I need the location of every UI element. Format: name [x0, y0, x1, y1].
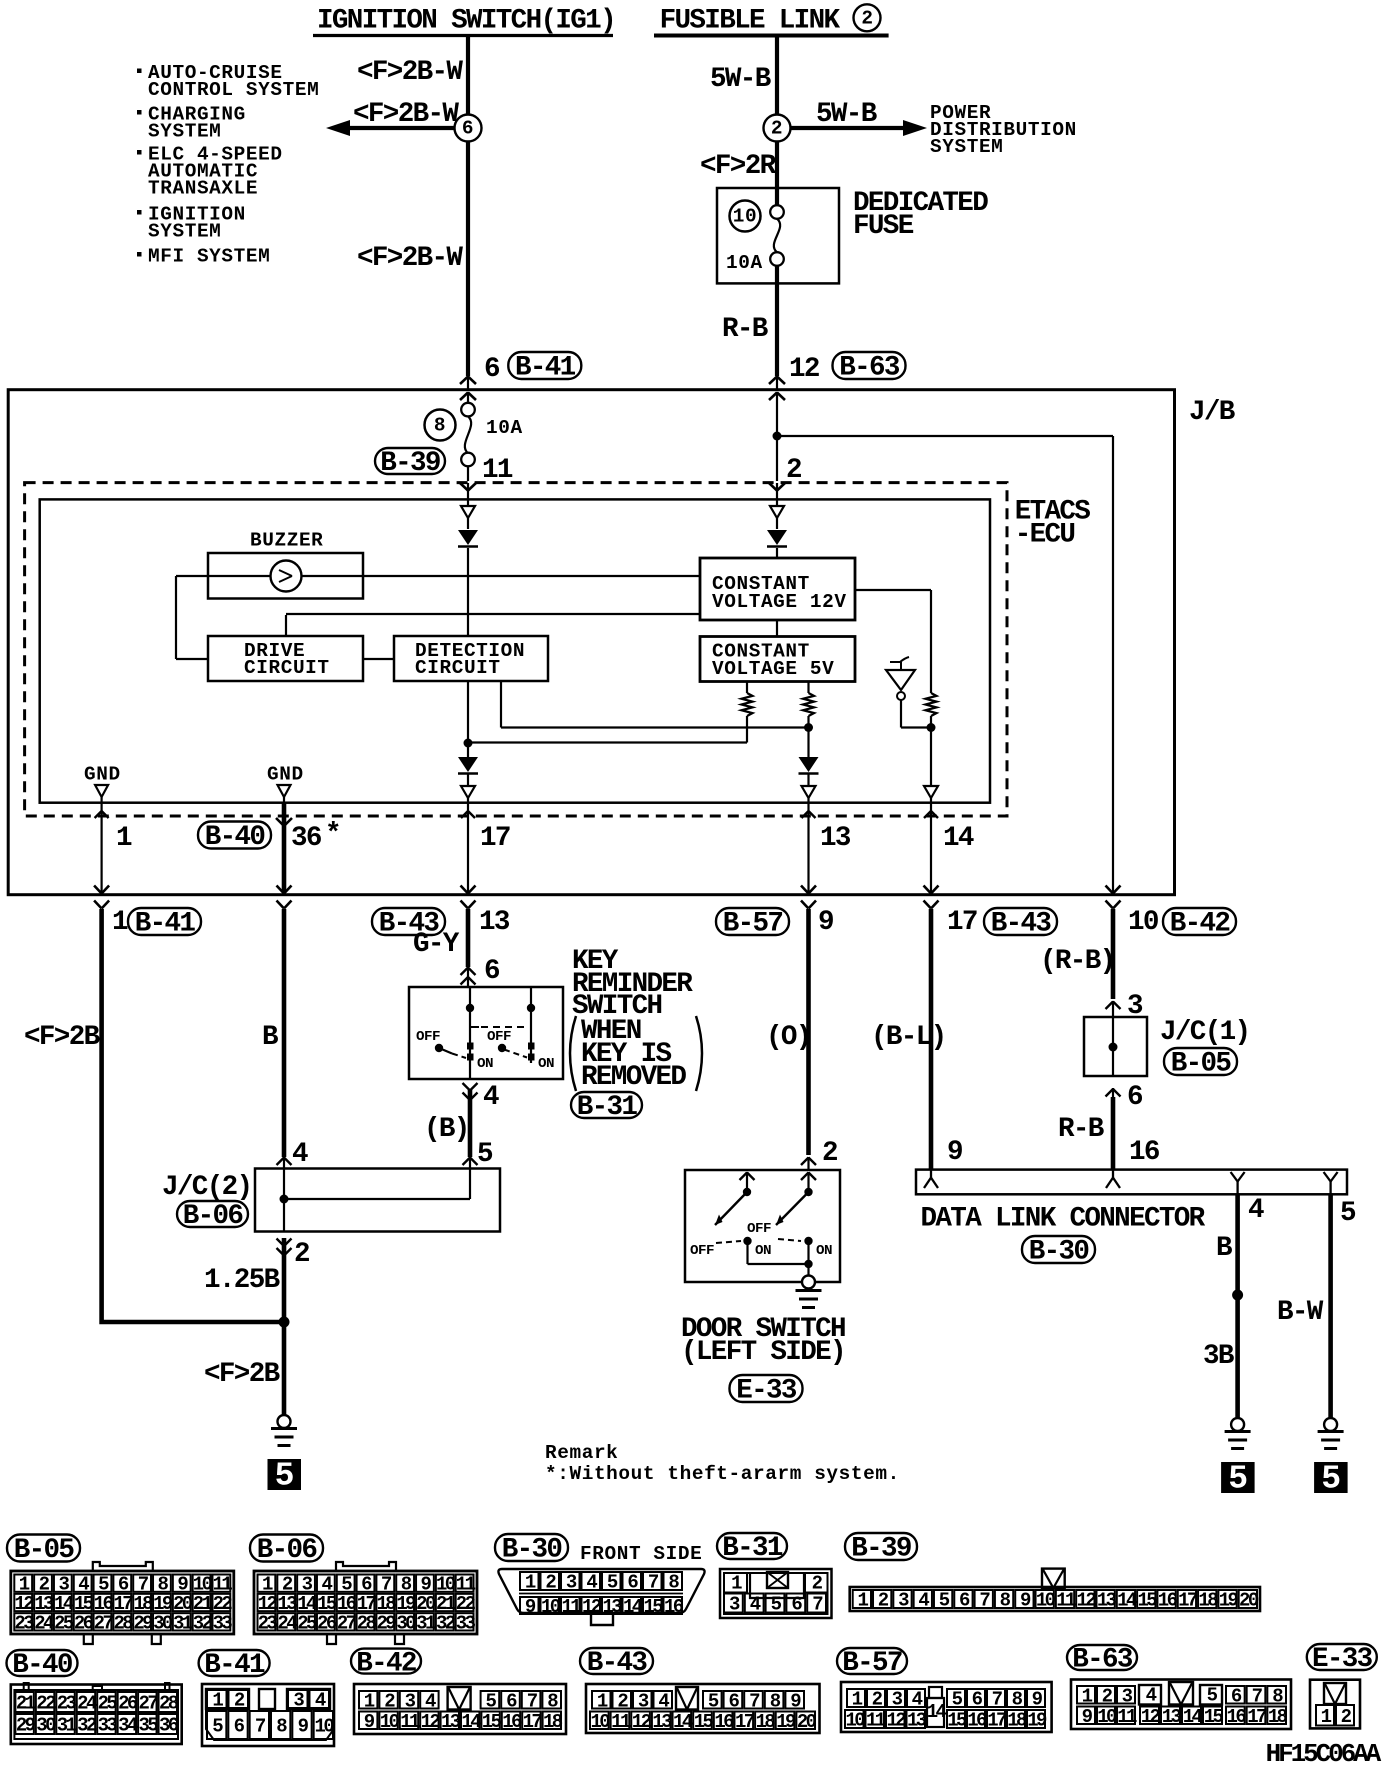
- svg-text:<F>2B-W: <F>2B-W: [357, 243, 463, 274]
- svg-text:16: 16: [1158, 1590, 1178, 1612]
- svg-text:32: 32: [77, 1715, 97, 1737]
- svg-text:5: 5: [1340, 1198, 1356, 1229]
- svg-text:13: 13: [907, 1710, 927, 1732]
- svg-text:33: 33: [98, 1715, 118, 1737]
- svg-text:B: B: [1216, 1233, 1232, 1264]
- svg-text:28: 28: [113, 1612, 133, 1634]
- svg-text:4: 4: [1248, 1195, 1264, 1226]
- svg-text:29: 29: [133, 1612, 153, 1634]
- svg-text:10: 10: [315, 1716, 335, 1738]
- svg-text:32: 32: [436, 1612, 456, 1634]
- svg-text:5: 5: [275, 1458, 295, 1495]
- svg-text:10: 10: [1097, 1706, 1117, 1728]
- svg-text:13: 13: [1162, 1706, 1182, 1728]
- svg-text:27: 27: [139, 1693, 159, 1715]
- svg-text:B-57: B-57: [723, 909, 783, 940]
- svg-text:SYSTEM: SYSTEM: [148, 221, 221, 243]
- svg-text:13: 13: [602, 1596, 622, 1618]
- svg-text:13: 13: [479, 907, 510, 938]
- svg-text:16: 16: [1227, 1706, 1247, 1728]
- svg-text:B-30: B-30: [502, 1535, 562, 1566]
- svg-text:17: 17: [735, 1711, 755, 1733]
- svg-text:19: 19: [1027, 1710, 1047, 1732]
- svg-text:9: 9: [818, 907, 833, 938]
- svg-text:19: 19: [1219, 1590, 1239, 1612]
- svg-text:13: 13: [441, 1711, 461, 1733]
- svg-text:ON: ON: [477, 1056, 493, 1072]
- svg-text:10: 10: [591, 1711, 611, 1733]
- svg-text:1: 1: [112, 907, 128, 938]
- svg-text:36: 36: [159, 1715, 179, 1737]
- svg-text:B-05: B-05: [14, 1535, 75, 1566]
- svg-text:SYSTEM: SYSTEM: [148, 121, 221, 143]
- svg-text:26: 26: [118, 1693, 138, 1715]
- svg-text:ON: ON: [755, 1243, 771, 1259]
- svg-text:11: 11: [1117, 1706, 1137, 1728]
- svg-text:CIRCUIT: CIRCUIT: [415, 657, 501, 679]
- svg-text:5W-B: 5W-B: [816, 99, 877, 130]
- svg-text:29: 29: [16, 1715, 36, 1737]
- svg-text:SYSTEM: SYSTEM: [930, 136, 1003, 158]
- svg-text:15: 15: [947, 1710, 967, 1732]
- svg-text:18: 18: [1198, 1590, 1218, 1612]
- svg-text:BUZZER: BUZZER: [250, 530, 323, 552]
- svg-text:4: 4: [483, 1082, 499, 1113]
- svg-text:OFF: OFF: [416, 1029, 440, 1045]
- svg-text:17: 17: [947, 907, 977, 938]
- svg-text:GND: GND: [267, 763, 304, 785]
- svg-text:12: 12: [1077, 1590, 1097, 1612]
- svg-text:J/B: J/B: [1189, 397, 1235, 428]
- svg-text:3B: 3B: [1203, 1341, 1234, 1372]
- svg-text:11: 11: [561, 1596, 581, 1618]
- svg-text:6: 6: [462, 118, 474, 140]
- svg-text:2: 2: [294, 1239, 309, 1270]
- svg-text:17: 17: [1247, 1706, 1267, 1728]
- svg-text:12: 12: [886, 1710, 906, 1732]
- svg-text:HF15C06AA: HF15C06AA: [1266, 1739, 1382, 1766]
- svg-text:B-40: B-40: [205, 822, 265, 853]
- svg-text:9: 9: [947, 1137, 962, 1168]
- svg-text:2: 2: [861, 8, 873, 30]
- svg-text:6: 6: [1127, 1082, 1143, 1113]
- svg-text:*:Without theft-ararm system.: *:Without theft-ararm system.: [545, 1463, 900, 1485]
- svg-text:B-W: B-W: [1277, 1297, 1324, 1328]
- svg-text:B-31: B-31: [577, 1092, 638, 1123]
- svg-text:DATA LINK CONNECTOR: DATA LINK CONNECTOR: [921, 1204, 1206, 1235]
- svg-text:30: 30: [396, 1612, 416, 1634]
- svg-text:31: 31: [173, 1612, 193, 1634]
- svg-text:CONTROL SYSTEM: CONTROL SYSTEM: [148, 79, 319, 101]
- svg-text:12: 12: [1141, 1706, 1161, 1728]
- svg-text:B-30: B-30: [1029, 1237, 1089, 1268]
- svg-text:4: 4: [292, 1139, 308, 1170]
- svg-text:B-40: B-40: [12, 1650, 72, 1681]
- svg-text:17: 17: [1178, 1590, 1198, 1612]
- svg-text:<F>2B: <F>2B: [24, 1022, 100, 1053]
- svg-text:16: 16: [664, 1596, 684, 1618]
- svg-text:12: 12: [632, 1711, 652, 1733]
- svg-text:23: 23: [14, 1612, 34, 1634]
- svg-text:20: 20: [797, 1711, 817, 1733]
- svg-text:E-33: E-33: [736, 1376, 797, 1407]
- svg-text:R-B: R-B: [1058, 1114, 1104, 1145]
- svg-text:14: 14: [461, 1711, 481, 1733]
- svg-text:<F>2B-W: <F>2B-W: [357, 57, 463, 88]
- svg-text:27: 27: [337, 1612, 357, 1634]
- svg-text:24: 24: [34, 1612, 54, 1634]
- svg-text:15: 15: [482, 1711, 502, 1733]
- svg-text:B-39: B-39: [380, 448, 440, 479]
- svg-text:30: 30: [153, 1612, 173, 1634]
- svg-text:OFF: OFF: [487, 1029, 511, 1045]
- svg-text:18: 18: [756, 1711, 776, 1733]
- svg-text:17: 17: [987, 1710, 1007, 1732]
- svg-text:16: 16: [502, 1711, 522, 1733]
- svg-text:23: 23: [258, 1612, 278, 1634]
- svg-text:17: 17: [523, 1711, 543, 1733]
- svg-text:2: 2: [771, 118, 783, 140]
- svg-text:13: 13: [1097, 1590, 1117, 1612]
- svg-text:10: 10: [1036, 1590, 1056, 1612]
- svg-text:34: 34: [118, 1715, 138, 1737]
- svg-text:Remark: Remark: [545, 1442, 618, 1464]
- svg-text:14: 14: [943, 823, 974, 854]
- svg-text:5: 5: [1321, 1461, 1341, 1498]
- svg-text:ON: ON: [816, 1243, 832, 1259]
- svg-text:E-33: E-33: [1312, 1644, 1373, 1675]
- svg-text:14: 14: [927, 1701, 947, 1723]
- svg-text:6: 6: [484, 956, 500, 987]
- svg-text:(O): (O): [766, 1022, 811, 1053]
- svg-text:16: 16: [714, 1711, 734, 1733]
- svg-text:5: 5: [477, 1139, 493, 1170]
- svg-text:FUSIBLE LINK: FUSIBLE LINK: [660, 5, 841, 36]
- svg-text:B-06: B-06: [257, 1535, 318, 1566]
- svg-text:-ECU: -ECU: [1015, 520, 1075, 551]
- svg-text:18: 18: [1007, 1710, 1027, 1732]
- svg-text:24: 24: [77, 1693, 97, 1715]
- svg-text:TRANSAXLE: TRANSAXLE: [148, 178, 258, 200]
- svg-text:B-63: B-63: [839, 353, 900, 384]
- svg-text:26: 26: [74, 1612, 94, 1634]
- svg-text:B-41: B-41: [515, 353, 576, 384]
- svg-text:MFI SYSTEM: MFI SYSTEM: [148, 246, 270, 268]
- svg-text:12: 12: [582, 1596, 602, 1618]
- svg-text:18: 18: [543, 1711, 563, 1733]
- svg-text:28: 28: [159, 1693, 179, 1715]
- svg-text:REMOVED: REMOVED: [581, 1062, 686, 1093]
- svg-text:15: 15: [694, 1711, 714, 1733]
- svg-text:<F>2B: <F>2B: [204, 1359, 280, 1390]
- svg-text:31: 31: [57, 1715, 77, 1737]
- svg-text:13: 13: [820, 823, 851, 854]
- svg-text:14: 14: [673, 1711, 693, 1733]
- svg-text:16: 16: [1129, 1137, 1160, 1168]
- svg-text:16: 16: [967, 1710, 987, 1732]
- svg-text:25: 25: [98, 1693, 118, 1715]
- svg-text:18: 18: [1268, 1706, 1288, 1728]
- svg-text:CIRCUIT: CIRCUIT: [244, 657, 330, 679]
- svg-text:1: 1: [116, 823, 132, 854]
- svg-text:2: 2: [822, 1138, 837, 1169]
- svg-text:10A: 10A: [486, 417, 523, 439]
- svg-text:B-06: B-06: [183, 1201, 244, 1232]
- svg-text:10: 10: [541, 1596, 561, 1618]
- svg-text:OFF: OFF: [747, 1221, 771, 1237]
- svg-text:15: 15: [643, 1596, 663, 1618]
- svg-text:FUSE: FUSE: [853, 211, 914, 242]
- svg-text:12: 12: [789, 354, 819, 385]
- svg-text:B-41: B-41: [135, 909, 196, 940]
- svg-text:(LEFT SIDE): (LEFT SIDE): [681, 1337, 845, 1368]
- svg-text:B: B: [262, 1022, 278, 1053]
- svg-text:22: 22: [36, 1693, 56, 1715]
- svg-text:14: 14: [1117, 1590, 1137, 1612]
- svg-text:<F>2B-W: <F>2B-W: [353, 99, 459, 130]
- svg-text:17: 17: [480, 823, 510, 854]
- svg-text:36: 36: [291, 823, 322, 854]
- svg-text:(B-L): (B-L): [871, 1022, 946, 1053]
- svg-text:11: 11: [1056, 1590, 1076, 1612]
- svg-text:23: 23: [57, 1693, 77, 1715]
- svg-text:35: 35: [139, 1715, 159, 1737]
- svg-text:B-43: B-43: [991, 909, 1052, 940]
- svg-text:11: 11: [611, 1711, 631, 1733]
- svg-text:25: 25: [297, 1612, 317, 1634]
- svg-text:<F>2R: <F>2R: [700, 151, 777, 182]
- svg-text:(R-B): (R-B): [1040, 946, 1115, 977]
- svg-text:13: 13: [652, 1711, 672, 1733]
- svg-text:10: 10: [845, 1710, 865, 1732]
- svg-text:FRONT SIDE: FRONT SIDE: [580, 1543, 702, 1565]
- svg-text:5: 5: [1228, 1461, 1248, 1498]
- svg-text:B-63: B-63: [1072, 1645, 1133, 1676]
- svg-text:5W-B: 5W-B: [710, 64, 771, 95]
- svg-text:25: 25: [54, 1612, 74, 1634]
- svg-text:10: 10: [1128, 907, 1158, 938]
- svg-text:27: 27: [94, 1612, 114, 1634]
- svg-text:10: 10: [733, 206, 757, 228]
- svg-text:15: 15: [1137, 1590, 1157, 1612]
- svg-text:J/C(1): J/C(1): [1160, 1017, 1249, 1048]
- svg-text:J/C(2): J/C(2): [162, 1172, 251, 1203]
- svg-text:B-43: B-43: [587, 1648, 648, 1679]
- svg-text:20: 20: [1239, 1590, 1259, 1612]
- svg-text:10A: 10A: [726, 252, 763, 274]
- svg-text:15: 15: [1204, 1706, 1224, 1728]
- svg-text:*: *: [325, 819, 340, 850]
- svg-text:B-42: B-42: [1170, 909, 1230, 940]
- svg-text:32: 32: [193, 1612, 213, 1634]
- svg-text:14: 14: [1183, 1706, 1203, 1728]
- svg-text:11: 11: [866, 1710, 886, 1732]
- svg-text:B-57: B-57: [842, 1648, 902, 1679]
- svg-text:11: 11: [400, 1711, 420, 1733]
- svg-text:29: 29: [377, 1612, 397, 1634]
- svg-text:G-Y: G-Y: [413, 929, 460, 960]
- svg-text:GND: GND: [84, 763, 121, 785]
- svg-text:19: 19: [776, 1711, 796, 1733]
- svg-text:B-39: B-39: [851, 1534, 911, 1565]
- svg-text:R-B: R-B: [722, 314, 768, 345]
- svg-text:1.25B: 1.25B: [204, 1265, 280, 1296]
- svg-text:10: 10: [380, 1711, 400, 1733]
- svg-text:30: 30: [36, 1715, 56, 1737]
- svg-text:24: 24: [277, 1612, 297, 1634]
- svg-text:12: 12: [421, 1711, 441, 1733]
- svg-text:IGNITION SWITCH(IG1): IGNITION SWITCH(IG1): [317, 5, 615, 36]
- svg-text:OFF: OFF: [690, 1243, 714, 1259]
- svg-text:28: 28: [357, 1612, 377, 1634]
- svg-text:21: 21: [16, 1693, 36, 1715]
- svg-text:6: 6: [484, 354, 500, 385]
- svg-text:VOLTAGE 5V: VOLTAGE 5V: [712, 658, 834, 680]
- svg-text:B-31: B-31: [722, 1533, 783, 1564]
- svg-text:31: 31: [416, 1612, 436, 1634]
- svg-text:14: 14: [623, 1596, 643, 1618]
- svg-text:B-42: B-42: [356, 1648, 416, 1679]
- svg-text:(B): (B): [424, 1114, 469, 1145]
- svg-text:26: 26: [317, 1612, 337, 1634]
- svg-text:VOLTAGE 12V: VOLTAGE 12V: [712, 591, 847, 613]
- svg-text:33: 33: [456, 1612, 476, 1634]
- svg-text:8: 8: [434, 415, 446, 437]
- svg-text:ON: ON: [538, 1056, 554, 1072]
- svg-text:B-05: B-05: [1171, 1049, 1232, 1080]
- svg-text:33: 33: [213, 1612, 233, 1634]
- svg-text:B-41: B-41: [204, 1650, 265, 1681]
